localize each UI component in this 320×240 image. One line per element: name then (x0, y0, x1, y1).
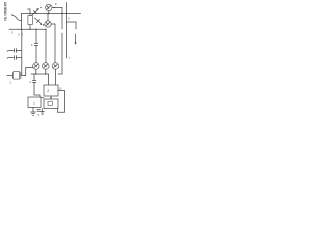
wire emitter rail (31, 73, 49, 75)
node q2 collector dot (43, 24, 44, 25)
wire U2 collector vertical (54, 24, 56, 63)
node rail2 x30 (29, 29, 30, 30)
wire left outer vertical (21, 14, 23, 30)
transistor U2 circle (45, 14, 55, 28)
node rail2 x46 (45, 29, 46, 30)
svg-text:7: 7 (69, 56, 71, 60)
wire base vertical with cap (35, 29, 37, 43)
svg-text:5: 5 (38, 113, 40, 117)
transistor U5 (52, 63, 59, 85)
svg-text:3: 3 (18, 33, 20, 37)
ground 1 (31, 108, 36, 116)
node junction top rail right (66, 13, 67, 14)
transistor U1 circle top (46, 4, 62, 13)
node dot base join (40, 7, 41, 8)
capacitor C3 (34, 44, 38, 46)
wire B to C (50, 96, 52, 99)
svg-text:1: 1 (33, 102, 35, 106)
wire right column from rail (61, 14, 63, 30)
wire between A and C (41, 97, 44, 99)
transistor U3 (33, 63, 40, 74)
node rail2 x36 (35, 29, 36, 30)
wire emitter rail to box B (48, 74, 50, 85)
node dot at 51,97.8 (50, 97, 51, 98)
svg-text:FIG. 6 PRIOR ART: FIG. 6 PRIOR ART (3, 1, 7, 20)
output arrowhead (75, 42, 77, 45)
svg-text:4: 4 (29, 80, 31, 84)
box B divider (44, 85, 58, 96)
wire left vertical to crystal (21, 29, 23, 75)
svg-text:9: 9 (68, 17, 70, 21)
wire x62 lower (58, 33, 62, 74)
wire top rail (22, 13, 67, 15)
wire right vertical (66, 3, 68, 59)
svg-text:5: 5 (11, 30, 13, 34)
box A (28, 97, 41, 108)
svg-text:2: 2 (10, 81, 12, 85)
svg-text:2: 2 (47, 89, 49, 93)
svg-text:10: 10 (59, 87, 62, 91)
svg-text:3: 3 (7, 49, 9, 53)
node rail2 x22 (21, 29, 22, 30)
wire U1 branch down (61, 8, 63, 14)
node leader dot (11, 14, 12, 15)
node dot right of U1 (53, 7, 54, 8)
wire q1 base stub (29, 9, 31, 16)
node emitter dot 2 (45, 73, 46, 74)
box C (44, 99, 58, 109)
wire top rail right extension (67, 13, 81, 15)
ground 2 (41, 109, 45, 115)
resistor R1 (28, 16, 32, 25)
capacitor C4 (32, 81, 35, 83)
capacitor C1 (8, 49, 22, 53)
svg-text:6: 6 (31, 43, 33, 47)
wire right loop (58, 91, 65, 113)
crystal X1 (7, 72, 26, 80)
node dot U1 emitter on rail (48, 13, 49, 14)
wire left drop with cap (33, 74, 35, 80)
wire U3 top vertical (45, 29, 47, 62)
wire r1 lower lead (29, 25, 31, 30)
wire crystal right riser (26, 68, 33, 76)
transistor Q2 (mirror diagonal lower) (35, 18, 43, 25)
capacitor C5 (37, 110, 40, 112)
svg-text:4: 4 (7, 56, 9, 60)
wire second rail (9, 28, 46, 30)
inner box in C (48, 101, 52, 105)
svg-text:8: 8 (55, 2, 57, 6)
node emitter dot 1 (35, 73, 36, 74)
capacitor C2 (8, 56, 22, 60)
transistor U4 (43, 63, 50, 74)
transistor Q1 (mirror diagonal) (32, 8, 39, 15)
wire leader squiggle (13, 15, 22, 20)
wire output branch (67, 22, 77, 29)
